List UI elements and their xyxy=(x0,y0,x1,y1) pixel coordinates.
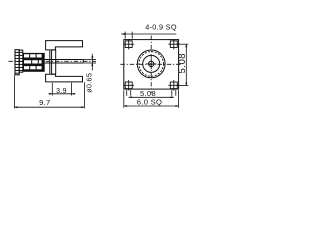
svg-text:9.7: 9.7 xyxy=(39,98,50,107)
svg-text:4-0.9 SQ: 4-0.9 SQ xyxy=(145,23,177,32)
svg-text:6.0 SQ: 6.0 SQ xyxy=(137,97,162,106)
svg-text:3.9: 3.9 xyxy=(56,88,67,95)
svg-text:ø0.65: ø0.65 xyxy=(84,73,93,93)
svg-text:5.08: 5.08 xyxy=(177,53,188,74)
